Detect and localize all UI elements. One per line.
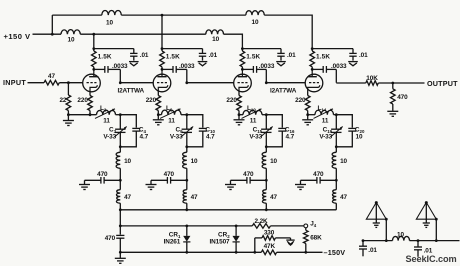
svg-text:470: 470 (397, 94, 408, 101)
resistor 330 (255, 236, 291, 253)
svg-text:11: 11 (168, 117, 175, 124)
ground (276, 61, 286, 63)
svg-text:SeekIC.com: SeekIC.com (406, 254, 457, 264)
node stage1 plate (92, 68, 95, 71)
svg-text:+150 V: +150 V (4, 32, 31, 41)
capacitor .0033 stage1 (94, 68, 105, 70)
node tank bottom (335, 145, 338, 148)
wire grid stage2 (120, 82, 153, 84)
resistor 1.5K stage4 (311, 49, 313, 51)
resistor 220 stage2 (157, 92, 159, 96)
ground (67, 115, 69, 120)
inductor 10 stage3 (265, 147, 267, 153)
capacitor C10 4.7 (187, 115, 207, 147)
capacitor C16 4.7 (266, 115, 286, 147)
ground (198, 61, 208, 63)
node tank stage4 (335, 113, 338, 116)
ground (300, 180, 302, 184)
svg-text:10: 10 (212, 36, 219, 43)
inductor 47 stage2 (186, 180, 188, 189)
node cathode stage2 (157, 113, 160, 116)
inductor 10 (rail 2, right) (206, 30, 224, 34)
node tank stage1 (119, 113, 122, 116)
svg-text:68K: 68K (310, 234, 322, 241)
svg-text:OUTPUT: OUTPUT (427, 79, 458, 88)
svg-text:.01: .01 (140, 52, 149, 59)
node (253, 251, 256, 254)
svg-text:470: 470 (164, 171, 175, 178)
node (235, 225, 238, 228)
ground (129, 61, 139, 63)
inductor 10 stage4 (335, 147, 337, 153)
svg-text:470: 470 (105, 235, 116, 242)
node stage3 supply (241, 47, 244, 50)
resistor 22 (67, 83, 69, 95)
node (185, 179, 188, 182)
svg-text:10K: 10K (366, 75, 378, 82)
diode CR2 IN1507 (233, 226, 240, 252)
inductor 47 stage3 (265, 180, 267, 189)
capacitor C20 10 (336, 115, 356, 147)
svg-text:47: 47 (270, 194, 277, 201)
wire AGC bus line 2 (120, 225, 252, 227)
svg-text:–150V: –150V (324, 248, 346, 257)
svg-text:10: 10 (68, 36, 75, 43)
svg-text:11: 11 (250, 117, 257, 124)
wire grid stage4 (266, 82, 305, 84)
capacitor .01 stage4 (352, 49, 354, 54)
svg-text:220: 220 (295, 97, 306, 104)
wire cathode rail stage1 (68, 114, 96, 116)
wire stage2 coupling corner (186, 69, 188, 82)
svg-text:4.7: 4.7 (206, 133, 215, 140)
svg-text:.0033: .0033 (331, 63, 347, 70)
node grid stage4 (265, 81, 268, 84)
capacitor 470 stage3 (231, 177, 267, 184)
node cathode stage3 (238, 113, 241, 116)
svg-text:47: 47 (340, 194, 347, 201)
ground (150, 180, 152, 184)
svg-text:470: 470 (243, 171, 254, 178)
inductor L6 11 (160, 109, 187, 119)
capacitor .0033 stage3 (242, 68, 253, 70)
svg-text:.01: .01 (359, 52, 368, 59)
node stage1 supply (92, 47, 95, 50)
wire bottom -150V rail (120, 251, 261, 253)
svg-text:IN261: IN261 (164, 239, 181, 246)
svg-text:V-33: V-33 (249, 134, 262, 141)
triode V2 (12AT7WA section) (153, 69, 171, 91)
ground (arrow) (290, 238, 292, 240)
wire heater rail (363, 240, 393, 242)
inductor L10 11 (242, 109, 267, 119)
diode CR1 IN261 (183, 226, 190, 252)
node (119, 225, 122, 228)
resistor 1.5K stage3 (241, 49, 243, 51)
node (185, 225, 188, 228)
inductor 47 stage1 (119, 180, 121, 189)
svg-text:4.7: 4.7 (140, 133, 149, 140)
ground (387, 110, 398, 112)
svg-text:IN1507: IN1507 (209, 239, 230, 246)
capacitor C9 V-33 (variable) (181, 115, 193, 147)
ground (230, 180, 232, 184)
svg-text:47K: 47K (264, 243, 276, 250)
svg-text:10: 10 (340, 158, 347, 165)
ground (307, 115, 309, 120)
svg-text:47: 47 (191, 194, 198, 201)
capacitor C4 4.7 (120, 115, 140, 147)
node tank bottom (119, 145, 122, 148)
svg-text:47: 47 (48, 73, 55, 80)
svg-text:V-33: V-33 (170, 134, 183, 141)
ground (119, 252, 121, 258)
capacitor C15 V-33 (variable) (261, 115, 273, 147)
inductor 10 heater (393, 236, 410, 240)
ground (84, 180, 86, 184)
node stage3 plate (241, 68, 244, 71)
svg-text:330: 330 (264, 229, 275, 236)
svg-text:INPUT: INPUT (3, 78, 26, 87)
node tank stage3 (265, 113, 268, 116)
svg-text:10: 10 (106, 19, 113, 26)
svg-text:.01: .01 (287, 52, 296, 59)
inductor L14 11 (314, 109, 337, 119)
node stage2 supply (161, 47, 164, 50)
capacitor .01 heater left (362, 239, 365, 242)
node stage4 plate (311, 68, 314, 71)
node (265, 208, 268, 211)
triode V1 (12AT7WA section) (83, 69, 101, 91)
svg-text:.0033: .0033 (112, 63, 128, 70)
wire input (28, 82, 45, 84)
svg-text:L6: L6 (166, 105, 173, 113)
svg-text:1.5K: 1.5K (166, 53, 180, 60)
wire to output (378, 82, 424, 84)
svg-text:.0033: .0033 (179, 63, 195, 70)
inductor L2 11 (95, 109, 120, 119)
svg-text:4.7: 4.7 (286, 133, 295, 140)
terminal J4 (304, 224, 308, 228)
svg-text:I2ATTWA: I2ATTWA (118, 87, 145, 94)
wire stage4 coupling corner (335, 69, 337, 82)
triode V3 (12AT7WA section) (234, 69, 252, 91)
resistor 220 stage4 (307, 92, 309, 96)
wire top B+ rail 1 (52, 15, 312, 49)
node rail link (51, 33, 54, 36)
inductor 10 (rail 2, left) (61, 30, 80, 35)
svg-text:2.2K: 2.2K (254, 218, 268, 225)
resistor 470 output (392, 83, 394, 89)
node (119, 179, 122, 182)
resistor 1.5K stage2 (161, 49, 163, 51)
inductor 47 stage4 (335, 180, 337, 189)
node (235, 251, 238, 254)
svg-text:10: 10 (270, 158, 277, 165)
resistor 2.2K (252, 224, 270, 229)
svg-text:L14: L14 (318, 105, 327, 113)
node input (67, 81, 70, 84)
svg-text:J4: J4 (310, 221, 317, 229)
capacitor .0033 stage4 (312, 68, 323, 70)
wire (239, 114, 243, 116)
node (185, 208, 188, 211)
svg-text:10: 10 (124, 158, 131, 165)
inductor 10 stage2 (186, 147, 188, 153)
shield/heater symbol (416, 201, 437, 242)
resistor 10K (366, 81, 379, 86)
node (119, 208, 122, 211)
resistor 47K (261, 250, 276, 255)
svg-text:22: 22 (59, 97, 66, 104)
wire input to grid (59, 82, 82, 84)
svg-text:10: 10 (191, 158, 198, 165)
ground (238, 115, 240, 120)
resistor 47 input (44, 80, 59, 85)
inductor 10 (rail 1, right) (246, 11, 264, 15)
svg-text:L2: L2 (100, 105, 107, 113)
resistor 220 stage1 (89, 92, 91, 96)
capacitor 470 (bus bypass) (116, 234, 124, 236)
node grid stage2 (119, 81, 122, 84)
svg-text:470: 470 (97, 171, 108, 178)
svg-text:.01: .01 (209, 52, 218, 59)
capacitor .0033 stage2 (162, 68, 173, 70)
resistor 68K (305, 228, 307, 231)
wire stage2 bypass branch (162, 48, 203, 50)
triode V4 (12AT7WA section) (305, 69, 323, 91)
svg-text:1.5K: 1.5K (98, 53, 112, 60)
svg-text:.0033: .0033 (259, 63, 275, 70)
svg-text:10: 10 (252, 19, 259, 26)
svg-text:220: 220 (146, 97, 157, 104)
node (335, 179, 338, 182)
svg-text:1.5K: 1.5K (316, 53, 330, 60)
node output (391, 82, 394, 85)
wire output coupling (335, 82, 337, 84)
capacitor 470 stage2 (151, 177, 187, 184)
node (304, 251, 307, 254)
svg-text:10: 10 (356, 133, 363, 140)
resistor 1.5K stage1 (93, 49, 95, 51)
svg-text:470: 470 (313, 171, 324, 178)
wire bus line 1 (120, 209, 336, 211)
wire (308, 114, 315, 116)
wire grid stage3 (187, 82, 234, 84)
resistor 220 stage3 (238, 92, 240, 96)
capacitor .01 stage2 (202, 49, 204, 54)
svg-text:11: 11 (322, 117, 329, 124)
node (265, 179, 268, 182)
svg-text:47: 47 (124, 194, 131, 201)
wire stage1 column to bypass (119, 210, 121, 235)
node stage4 supply (311, 47, 314, 50)
wire stage1 bypass branch (94, 48, 134, 50)
node (119, 251, 122, 254)
svg-text:V-33: V-33 (103, 134, 116, 141)
node tank bottom (265, 145, 268, 148)
wire rail1-rail2 link (51, 15, 53, 34)
svg-text:1.5K: 1.5K (246, 53, 260, 60)
wire stage4 bypass branch (312, 48, 353, 50)
wire +150V rail 2 (33, 34, 243, 48)
svg-text:V-33: V-33 (319, 134, 332, 141)
capacitor 470 stage4 (301, 177, 337, 184)
node stage2 plate (161, 68, 164, 71)
svg-text:220: 220 (77, 97, 88, 104)
capacitor .01 heater right (417, 239, 420, 242)
wire stage1 supply drop (93, 34, 95, 48)
inductor 10 (rail 1, left) (102, 11, 122, 16)
wire stage1 coupling corner (119, 69, 121, 82)
capacitor .01 stage1 (133, 49, 135, 54)
svg-text:L10: L10 (247, 105, 256, 113)
wire stage3 coupling corner (265, 69, 267, 82)
wire (158, 114, 161, 116)
inductor 10 stage1 (119, 147, 121, 153)
wire stage3 bypass branch (242, 48, 281, 50)
node tank stage2 (185, 113, 188, 116)
svg-text:10: 10 (397, 232, 404, 239)
capacitor C3 V-33 (variable) (115, 115, 127, 147)
capacitor 470 stage1 (85, 177, 121, 184)
node stage2 rail1 tap (161, 14, 164, 17)
node grid stage3 (185, 81, 188, 84)
ground (348, 61, 358, 63)
ground (157, 115, 159, 120)
svg-text:11: 11 (103, 117, 110, 124)
node cathode stage4 (306, 113, 309, 116)
node (185, 251, 188, 254)
svg-text:220: 220 (226, 97, 237, 104)
node (67, 113, 70, 116)
svg-text:I2AT7WA: I2AT7WA (270, 87, 297, 94)
shield/heater symbol (366, 201, 387, 242)
capacitor C19 V-33 (variable) (331, 115, 343, 147)
node stage1 supply tap (92, 33, 95, 36)
wire stage2 supply drop (161, 15, 163, 49)
capacitor .01 stage3 (280, 49, 282, 54)
svg-text:.01: .01 (368, 247, 377, 254)
node (89, 113, 92, 116)
node tank bottom (185, 145, 188, 148)
